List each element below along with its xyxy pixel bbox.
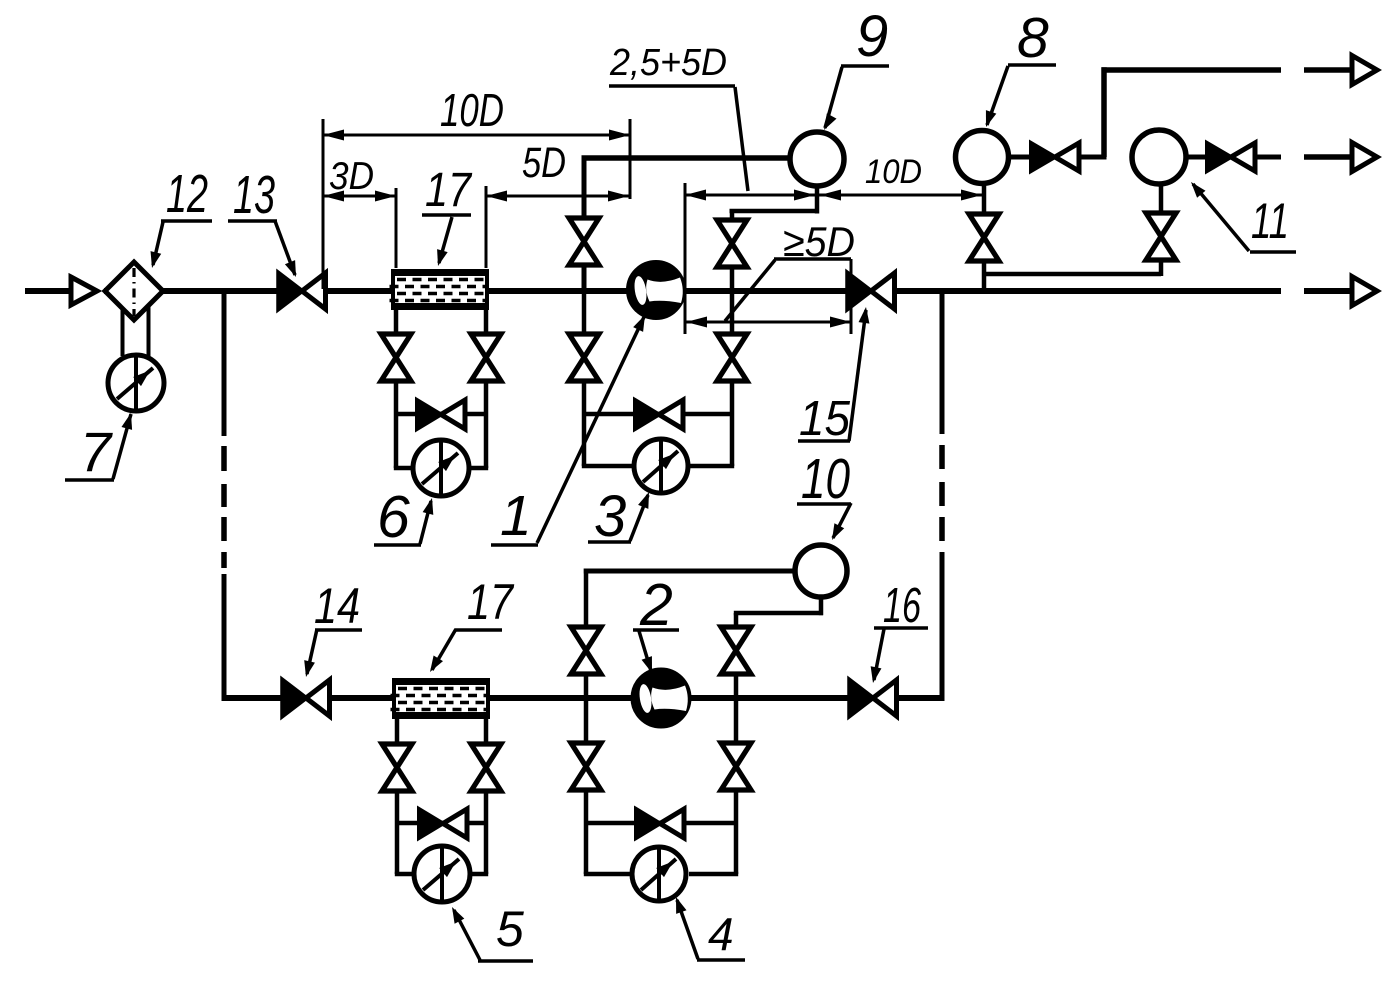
svg-text:13: 13 xyxy=(233,165,275,225)
wire: meter2 right riser xyxy=(734,613,739,698)
svg-text:15: 15 xyxy=(799,392,851,446)
flow meter 2 xyxy=(633,670,689,726)
svg-text:5: 5 xyxy=(496,901,524,957)
wire: right bypass drop solid lower xyxy=(940,552,945,701)
svg-text:17: 17 xyxy=(425,164,473,217)
svg-text:9: 9 xyxy=(856,4,888,69)
wire: horizontal pipe to vessel 10 xyxy=(584,569,796,574)
label 2 leader xyxy=(633,630,679,675)
wire: riser to top output xyxy=(1101,67,1107,157)
dimension line 3D xyxy=(323,191,396,202)
wire: right bypass drop dashed xyxy=(939,445,945,541)
extension line at valve 15 plane xyxy=(850,259,853,334)
wire: inlet stub xyxy=(25,288,73,294)
valve on meter2 right lower leg xyxy=(721,743,751,790)
svg-text:6: 6 xyxy=(377,484,410,550)
label 4 leader xyxy=(671,895,745,960)
filter 12 diamond xyxy=(105,262,163,320)
wire: filter17 lower right leg xyxy=(484,715,489,874)
wire: meter2 left leg below lower line xyxy=(584,698,589,874)
wire: main upper pipeline xyxy=(104,288,1281,294)
valve on meter1 right upper leg xyxy=(717,220,747,267)
gauge 6 xyxy=(413,440,469,496)
vessel 9 xyxy=(790,132,844,186)
wire: left bypass drop solid lower xyxy=(222,574,227,701)
wire: meter1 gauge right link xyxy=(686,464,734,469)
valve on filter17-lower right leg xyxy=(471,744,501,791)
flow meter 1 xyxy=(629,263,684,318)
outlet flow arrow middle line xyxy=(1352,143,1377,172)
wire: stub below vessel 9 xyxy=(815,185,820,214)
valve below vessel 11 xyxy=(1146,213,1176,260)
wire: left bypass drop dashed xyxy=(221,446,227,568)
inlet flow arrow xyxy=(71,277,97,305)
filter 17 upper xyxy=(390,269,490,310)
wire: connector vessels 8-11 xyxy=(984,272,1161,277)
wire: meter1 left leg below main xyxy=(582,291,587,466)
valve at vessel 11 outlet xyxy=(1207,143,1255,171)
gauge 3 xyxy=(634,439,688,493)
svg-text:11: 11 xyxy=(1251,193,1289,249)
svg-text:12: 12 xyxy=(166,164,208,224)
wire: gauge4 left link xyxy=(584,872,636,877)
valve 16 xyxy=(850,680,897,716)
svg-text:7: 7 xyxy=(80,420,113,483)
wire: top output line xyxy=(1102,67,1282,73)
wire: gauge6 left link xyxy=(394,466,418,471)
wire: vessel11 outlet right xyxy=(1253,155,1281,160)
outlet flow arrow main line xyxy=(1352,277,1377,306)
valve on filter17-upper right leg xyxy=(471,334,501,381)
wire: lower pipeline xyxy=(222,695,945,701)
gauge 5 xyxy=(414,846,470,902)
gauge 7 xyxy=(108,355,164,411)
wire: stub below vessel 10 xyxy=(819,596,824,615)
svg-text:10D: 10D xyxy=(865,153,922,191)
valve meter2 bypass xyxy=(636,809,684,838)
label 17 lower leader xyxy=(425,629,502,675)
gauge 4 xyxy=(632,847,686,901)
label 13 leader xyxy=(228,221,301,279)
dimension line 2,5+5D and 10D right xyxy=(685,190,982,201)
extension line at filter inlet plane xyxy=(395,188,398,268)
svg-text:17: 17 xyxy=(467,574,515,630)
valve filter17-lower bypass xyxy=(419,809,467,838)
outlet flow arrow top line xyxy=(1352,56,1377,85)
wire: horizontal pipe to vessel 9 xyxy=(582,155,792,161)
valve on meter1 left lower leg xyxy=(569,334,599,381)
wire: meter2 left riser above lower line xyxy=(584,569,589,699)
filter 17 lower xyxy=(391,678,491,719)
svg-text:5D: 5D xyxy=(522,139,566,187)
label 12 leader xyxy=(147,221,212,269)
svg-text:16: 16 xyxy=(883,579,922,633)
wire: main outlet segment xyxy=(1304,288,1353,294)
valve 14 xyxy=(283,680,330,716)
label 1 leader xyxy=(491,313,650,545)
valve filter17-upper bypass xyxy=(417,400,465,429)
wire: jog below vessel 9 xyxy=(730,209,820,214)
wire: vessel8 outlet to riser xyxy=(1077,155,1107,160)
valve at vessel 8 outlet xyxy=(1031,143,1079,171)
wire: filter17 upper right leg xyxy=(484,308,489,468)
wire: vessel11 outlet xyxy=(1185,155,1209,160)
wire: gauge6 right link xyxy=(466,466,488,471)
label 10 leader xyxy=(797,503,851,543)
svg-text:10: 10 xyxy=(801,447,850,511)
wire: right bypass drop solid upper xyxy=(940,291,945,434)
svg-text:3: 3 xyxy=(594,484,626,549)
wire: meter1 gauge left link xyxy=(582,464,637,469)
svg-text:2: 2 xyxy=(639,572,673,638)
vessel 11 xyxy=(1132,130,1186,184)
label 15 leader xyxy=(798,306,871,441)
extension line at meter outlet plane xyxy=(684,183,687,334)
label 3 leader xyxy=(588,490,654,542)
wire: branch to vessel 11 xyxy=(1159,184,1164,276)
label 14 leader xyxy=(301,629,362,678)
svg-text:14: 14 xyxy=(314,578,360,634)
label 7 leader xyxy=(65,412,136,480)
wire: meter2 bypass line xyxy=(586,821,736,826)
wire: meter1 bypass line xyxy=(584,412,732,417)
svg-text:1: 1 xyxy=(500,484,532,548)
wire: riser to vessel 9 vertical xyxy=(582,156,587,292)
wire: gauge5 left link xyxy=(395,872,418,877)
wire: jog below vessel 10 xyxy=(734,611,823,616)
wire: filter17 upper bypass line xyxy=(396,412,486,417)
wire: filter17 upper left leg xyxy=(394,308,399,468)
label 2,5+5D leader xyxy=(609,86,748,191)
valve on riser to vessel 9 xyxy=(569,218,599,265)
wire: filter17 lower bypass line xyxy=(397,821,486,826)
extension line at meter inlet plane xyxy=(629,119,632,199)
valve on meter2 right riser xyxy=(721,627,751,674)
valve on filter17-upper left leg xyxy=(381,334,411,381)
svg-text:10D: 10D xyxy=(440,84,504,136)
svg-text:4: 4 xyxy=(708,908,734,960)
wire: filter17 lower left leg xyxy=(395,715,400,874)
svg-text:≥5D: ≥5D xyxy=(783,218,855,265)
wire: vessel8 outlet xyxy=(1006,155,1033,160)
wire: left bypass drop solid upper xyxy=(222,291,227,436)
dimension line 10D upper xyxy=(323,130,630,141)
label 9 leader xyxy=(819,66,889,133)
label 8 leader xyxy=(981,65,1056,129)
wire: meter2 right leg below lower line xyxy=(734,698,739,874)
svg-text:3D: 3D xyxy=(329,155,374,198)
label 11 leader xyxy=(1187,178,1296,252)
wire: gauge4 right link xyxy=(689,872,738,877)
dimension line 5D xyxy=(486,191,629,202)
wire: branch to vessel 8 xyxy=(982,184,987,291)
valve meter1 bypass xyxy=(635,400,683,429)
label 5 leader xyxy=(447,904,533,961)
wire: gauge5 right link xyxy=(467,872,488,877)
svg-text:8: 8 xyxy=(1017,6,1049,70)
valve on meter2 left lower leg xyxy=(571,743,601,790)
label 6 leader xyxy=(374,497,437,545)
extension line at filter outlet plane xyxy=(485,186,488,268)
svg-text:2,5+5D: 2,5+5D xyxy=(609,42,727,84)
wire: middle outlet segment xyxy=(1304,154,1353,160)
label 17 upper leader xyxy=(422,215,471,268)
label 16 leader xyxy=(868,628,928,684)
valve 15 xyxy=(848,273,895,309)
valve below vessel 8 xyxy=(969,214,999,261)
vessel 10 xyxy=(795,545,847,597)
extension line at valve 13 plane xyxy=(322,119,325,289)
wire: top outlet segment xyxy=(1304,67,1353,73)
wire: pocket lines below filter 12 xyxy=(123,306,149,356)
vessel 8 xyxy=(956,131,1009,184)
valve on filter17-lower left leg xyxy=(382,744,412,791)
valve 13 xyxy=(279,273,326,309)
label >=5D leader xyxy=(725,259,851,321)
valve on meter2 left riser xyxy=(571,627,601,674)
valve on meter1 right lower leg xyxy=(717,334,747,381)
wire: meter1 right leg vertical xyxy=(730,211,735,466)
dimension line >=5D xyxy=(686,317,851,328)
